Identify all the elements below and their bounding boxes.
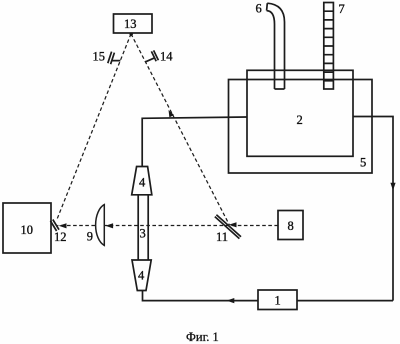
arrow right of lens 9 xyxy=(105,223,113,228)
arrow on right diagonal (up toward 13) xyxy=(169,110,175,117)
svg-text:1: 1 xyxy=(275,294,281,308)
svg-text:8: 8 xyxy=(288,219,294,233)
arrow left of 12 xyxy=(59,223,67,228)
tube 3 (measuring cell) xyxy=(138,195,148,260)
dashed beam: horizontal main optical axis xyxy=(58,225,279,227)
svg-text:13: 13 xyxy=(124,17,137,31)
svg-text:11: 11 xyxy=(216,230,228,244)
mirror 15 symbol xyxy=(108,52,121,65)
arrow on bottom wire (left, before box 1) xyxy=(227,298,235,303)
tube 7 (segmented ladder tube) xyxy=(324,3,334,90)
wire: box 2 right to down corner xyxy=(353,117,393,301)
box 2 (inner vessel) xyxy=(247,70,353,156)
tube 6 (curved inlet tube) xyxy=(267,3,285,89)
svg-text:4: 4 xyxy=(139,176,146,190)
svg-text:5: 5 xyxy=(360,156,366,170)
svg-text:10: 10 xyxy=(21,223,34,237)
wire: tube top to box 2 left xyxy=(142,117,247,167)
svg-text:2: 2 xyxy=(297,113,303,127)
junction dot below box 13 xyxy=(130,33,133,36)
beamsplitter 11 xyxy=(215,215,241,239)
box 8 (source) xyxy=(278,211,303,240)
box 13 (detector unit) xyxy=(114,14,153,33)
svg-text:14: 14 xyxy=(160,50,173,64)
box 10 (recorder) xyxy=(3,203,51,253)
wire: box 1 to tube bottom xyxy=(143,291,259,301)
wire: right corner to box 1 xyxy=(297,300,393,302)
arrow at beamsplitter 11 xyxy=(229,222,237,227)
svg-text:6: 6 xyxy=(256,2,262,16)
svg-text:15: 15 xyxy=(93,50,106,64)
dashed beam: left diagonal 13 to 12 xyxy=(57,34,132,221)
svg-text:9: 9 xyxy=(87,230,93,244)
svg-text:7: 7 xyxy=(339,2,345,16)
dashed beam: right diagonal 13 to 11 xyxy=(131,34,230,225)
cone 4 (bottom) xyxy=(132,260,151,291)
svg-text:Фиг. 1: Фиг. 1 xyxy=(186,330,219,344)
lens 9 (plano-convex) xyxy=(96,205,105,246)
box 1 (pump) xyxy=(258,290,297,310)
svg-text:4: 4 xyxy=(138,269,145,283)
arrow on right vertical wire (down) xyxy=(390,183,395,191)
svg-text:3: 3 xyxy=(140,227,146,241)
mirror 14 symbol xyxy=(146,50,159,61)
svg-text:12: 12 xyxy=(54,230,67,244)
mirror 12 symbol xyxy=(50,220,59,232)
cone 4 (top) xyxy=(132,167,152,195)
box 5 (outer thermostat) xyxy=(229,80,373,174)
